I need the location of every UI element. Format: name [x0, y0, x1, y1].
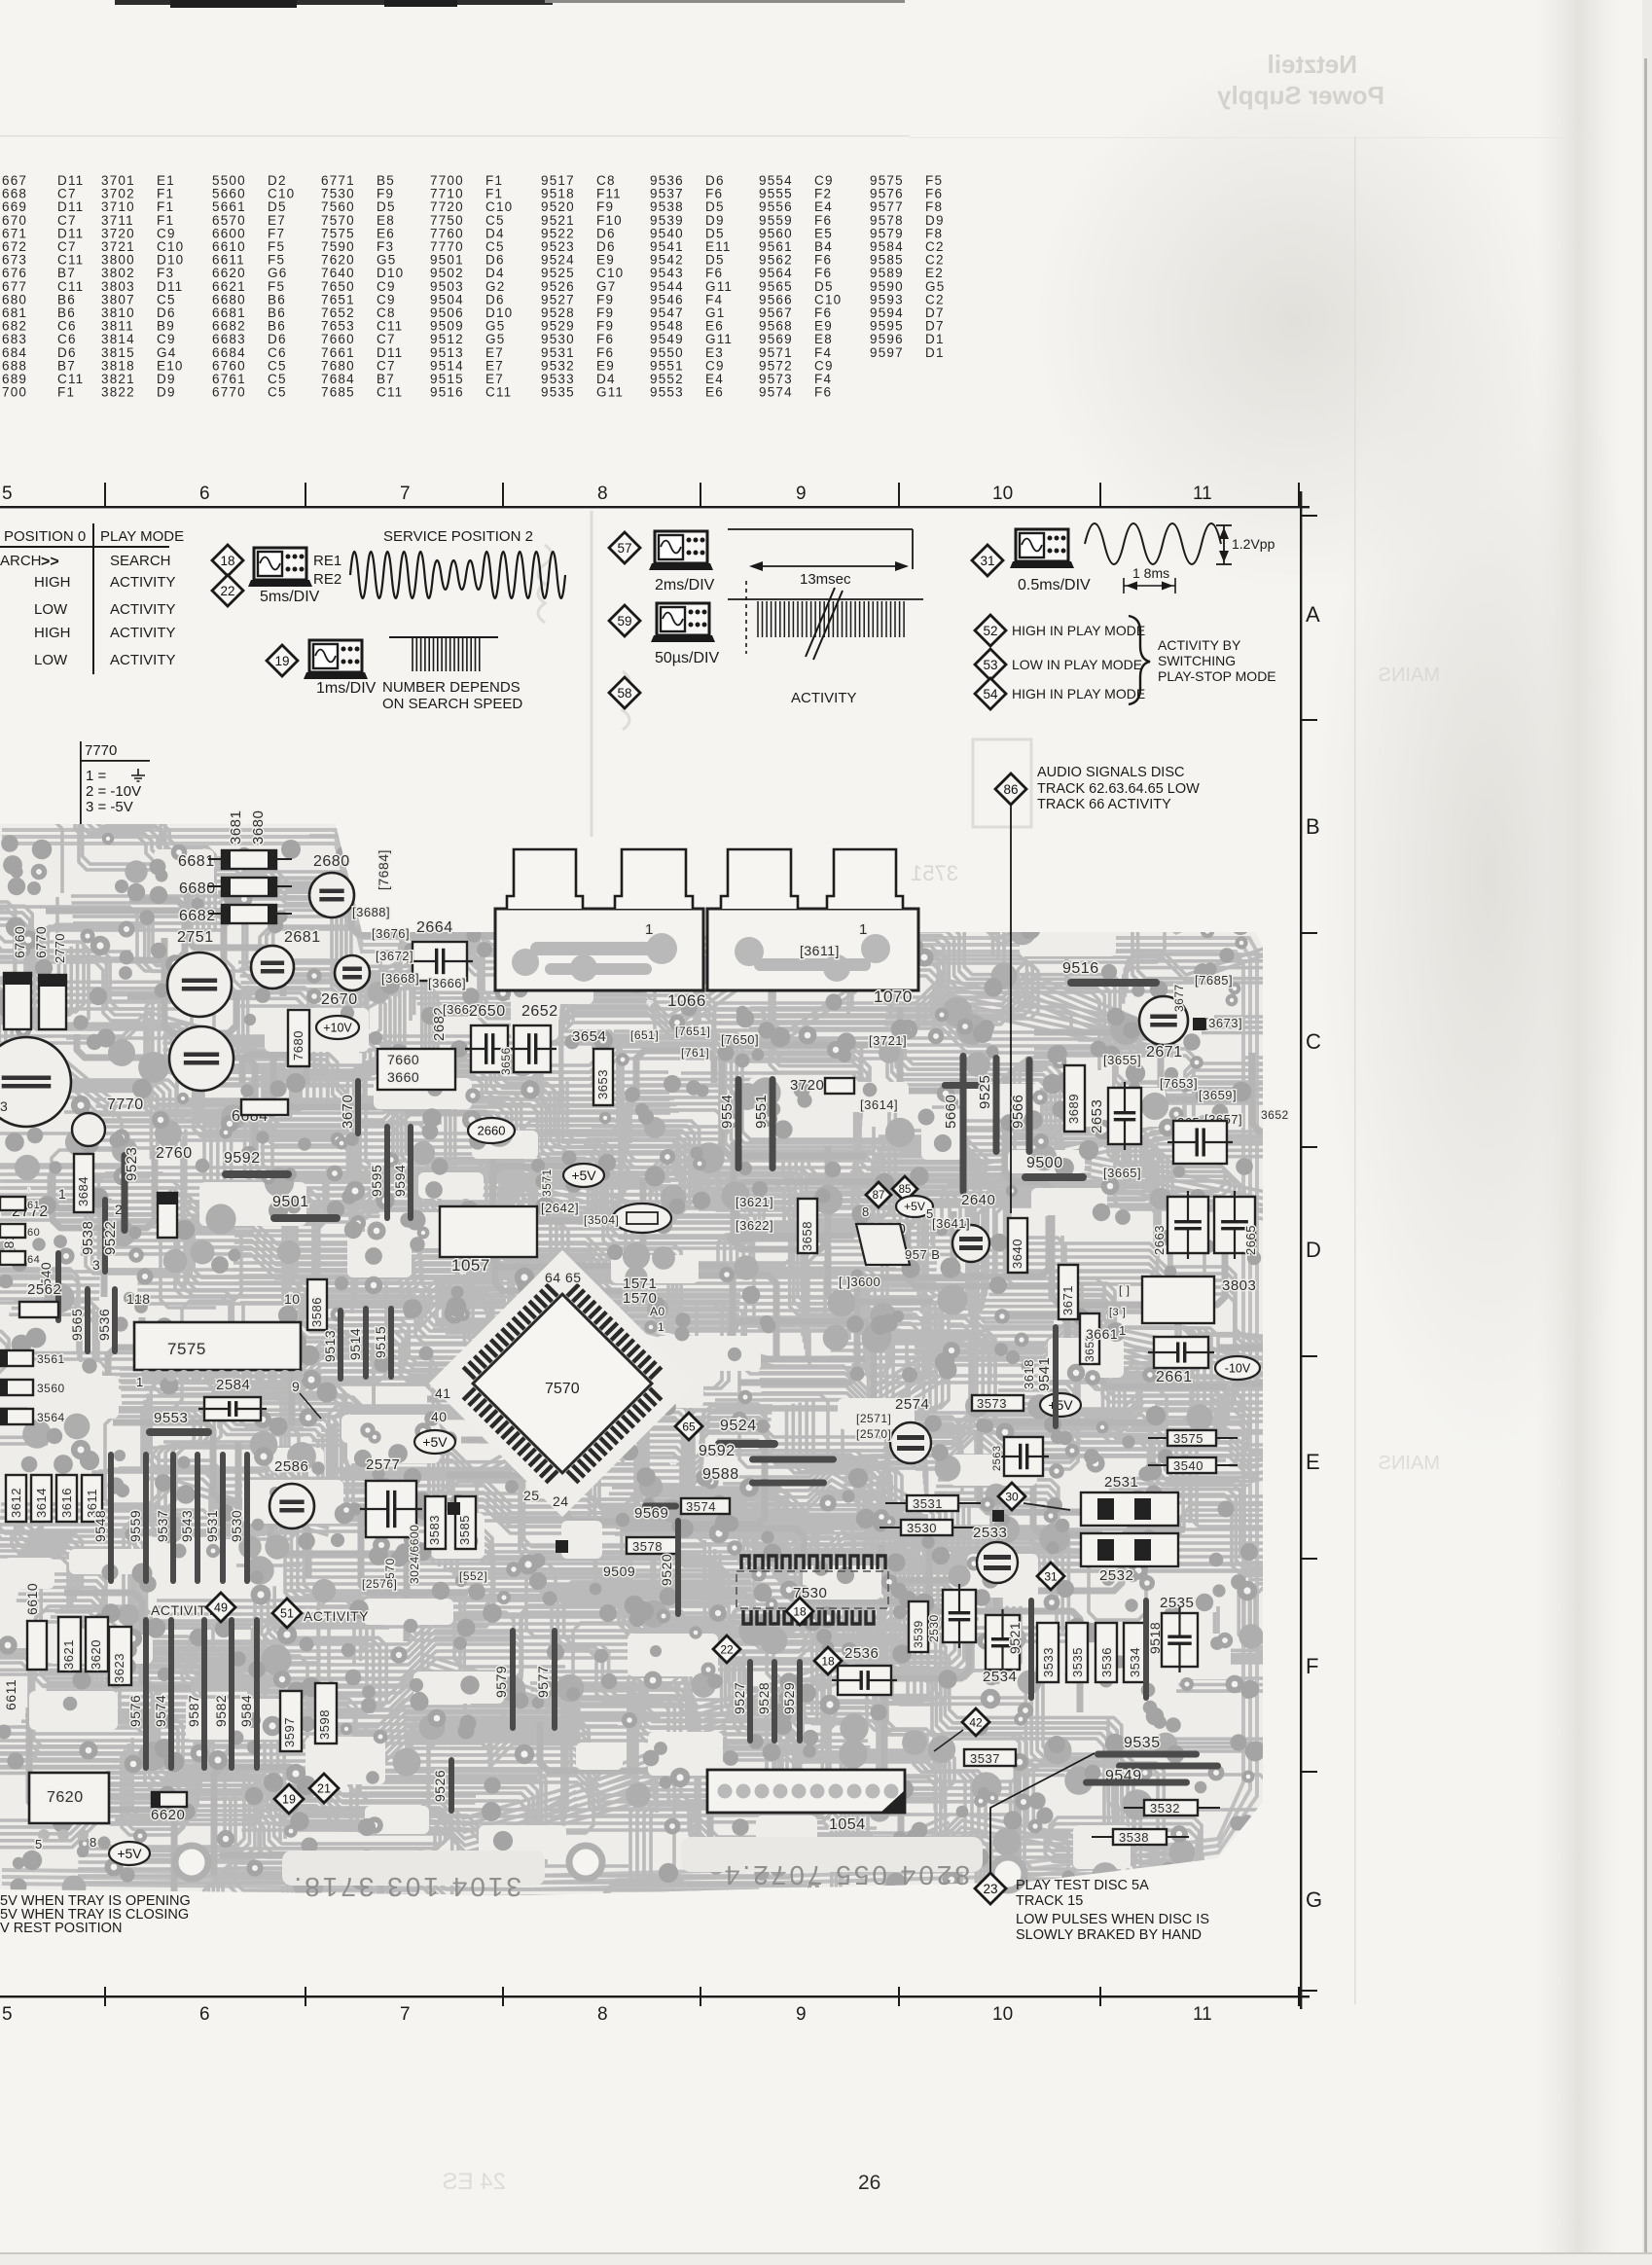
svg-text:25: 25 [523, 1488, 540, 1503]
svg-text:3104 103 3718.: 3104 103 3718. [291, 1872, 521, 1902]
3671 [1059, 1265, 1078, 1319]
connector 1066 [495, 909, 703, 990]
svg-text:3561: 3561 [37, 1352, 65, 1366]
svg-text:6770: 6770 [212, 385, 246, 400]
svg-text:9523: 9523 [124, 1147, 140, 1181]
3658 [798, 1199, 817, 1253]
svg-text:[7653]: [7653] [1160, 1076, 1198, 1091]
svg-text:[3611]: [3611] [800, 943, 840, 958]
svg-text:7: 7 [400, 2004, 411, 2025]
svg-text:1: 1 [658, 1320, 664, 1334]
svg-text:18: 18 [134, 1291, 151, 1307]
9579/9577 [510, 1628, 516, 1731]
svg-text:1 =: 1 = [86, 768, 107, 784]
svg-text:3: 3 [92, 1257, 100, 1273]
svg-text:9528: 9528 [756, 1682, 772, 1714]
svg-text:1054: 1054 [829, 1816, 866, 1833]
svg-text:5ms/DIV: 5ms/DIV [260, 589, 320, 605]
svg-text:9531: 9531 [204, 1510, 220, 1542]
2538 [943, 1590, 976, 1642]
svg-text:2760: 2760 [156, 1145, 193, 1162]
svg-text:2653: 2653 [1089, 1099, 1105, 1133]
3533/3535/3536/3534 [1037, 1623, 1059, 1682]
svg-text:ACTIVITY: ACTIVITY [110, 625, 176, 641]
mirrored board codes [681, 1837, 983, 1872]
svg-text:9525: 9525 [977, 1075, 993, 1109]
9595/9594 [384, 1124, 390, 1221]
svg-text:3656: 3656 [499, 1047, 513, 1075]
svg-text:9543: 9543 [179, 1510, 195, 1542]
svg-text:3574: 3574 [686, 1499, 716, 1514]
diamonds 87/85 [866, 1182, 891, 1207]
svg-text:21: 21 [317, 1782, 331, 1796]
pulse comb [389, 636, 498, 638]
left mode table [0, 528, 184, 668]
svg-text:9530: 9530 [229, 1510, 244, 1542]
svg-text:1066: 1066 [667, 991, 706, 1010]
svg-text:SEARCH: SEARCH [110, 553, 171, 569]
svg-text:9548: 9548 [92, 1510, 108, 1542]
search sine burst [350, 552, 565, 598]
svg-text:9509: 9509 [603, 1564, 635, 1579]
3621 3620 [58, 1617, 81, 1672]
svg-text:3 = -5V: 3 = -5V [86, 799, 133, 815]
svg-text:7575: 7575 [167, 1340, 206, 1358]
svg-text:3689: 3689 [1066, 1094, 1081, 1124]
svg-text:9513: 9513 [322, 1330, 338, 1362]
svg-text:2751: 2751 [177, 929, 214, 946]
svg-text:64: 64 [27, 1254, 40, 1266]
svg-text:3658: 3658 [800, 1221, 814, 1251]
svg-text:3720: 3720 [790, 1077, 824, 1094]
svg-text:2680: 2680 [313, 853, 350, 870]
svg-text:3532: 3532 [1150, 1801, 1180, 1816]
svg-text:G11: G11 [596, 385, 624, 400]
9520 [675, 1518, 681, 1617]
svg-text:7770: 7770 [107, 1097, 144, 1113]
svg-text:9518: 9518 [1147, 1622, 1163, 1654]
svg-text:9576: 9576 [127, 1695, 143, 1727]
svg-text:6: 6 [199, 484, 210, 504]
svg-text:1070: 1070 [874, 988, 913, 1006]
svg-text:18: 18 [793, 1604, 807, 1618]
svg-text:+5V: +5V [1048, 1397, 1073, 1413]
IC 7570 clearing halo [429, 1250, 696, 1517]
svg-text:10: 10 [992, 2004, 1013, 2025]
svg-text:9538: 9538 [80, 1221, 96, 1255]
svg-text:9524: 9524 [720, 1418, 757, 1434]
svg-text:41: 41 [435, 1385, 451, 1401]
svg-text:[7684]: [7684] [376, 849, 391, 890]
svg-text:Netzteil: Netzteil [1268, 50, 1357, 79]
+5V ellipses [563, 1164, 604, 1187]
connector tab [721, 849, 798, 909]
svg-text:C11: C11 [485, 385, 512, 400]
svg-text:TRACK 62.63.64.65 LOW: TRACK 62.63.64.65 LOW [1037, 781, 1200, 797]
svg-text:[3659]: [3659] [1199, 1088, 1237, 1102]
3803 box [1142, 1276, 1214, 1323]
svg-text:3540: 3540 [1173, 1458, 1203, 1473]
svg-text:3751: 3751 [911, 861, 958, 885]
svg-text:9587: 9587 [186, 1695, 201, 1727]
svg-text:[3622]: [3622] [736, 1218, 773, 1233]
svg-text:5: 5 [2, 2004, 13, 2025]
svg-text:54: 54 [983, 687, 998, 701]
svg-text:3530: 3530 [907, 1521, 937, 1535]
svg-text:LOW: LOW [34, 601, 68, 618]
9527/9528/9529 [747, 1659, 753, 1744]
svg-text:+10V: +10V [323, 1021, 352, 1034]
svg-text:9574: 9574 [153, 1695, 168, 1727]
svg-text:7685: 7685 [321, 385, 355, 400]
svg-text:31: 31 [1044, 1569, 1058, 1583]
svg-text:3822: 3822 [101, 385, 135, 400]
svg-text:SLOWLY BRAKED BY HAND: SLOWLY BRAKED BY HAND [1016, 1927, 1202, 1943]
svg-text:31: 31 [980, 554, 994, 568]
svg-text:3535: 3535 [1070, 1647, 1085, 1677]
7620 [29, 1773, 109, 1823]
9520 bar bottom [449, 1757, 454, 1814]
2660 [468, 1118, 515, 1143]
svg-text:C: C [1306, 1029, 1321, 1054]
svg-text:SERVICE POSITION 2: SERVICE POSITION 2 [383, 528, 533, 545]
svg-text:9579: 9579 [493, 1666, 509, 1698]
svg-text:6770: 6770 [33, 926, 49, 958]
svg-text:6: 6 [199, 2004, 210, 2025]
1054 connector [707, 1770, 905, 1813]
svg-text:30: 30 [1005, 1490, 1019, 1503]
svg-text:2577: 2577 [366, 1456, 400, 1473]
bars 9513/9514/9515 [338, 1308, 343, 1382]
left bar group 2 [143, 1617, 149, 1771]
svg-text:3654: 3654 [572, 1028, 606, 1045]
svg-text:3677: 3677 [1172, 984, 1186, 1012]
svg-text:40: 40 [431, 1409, 448, 1424]
3574 [681, 1498, 730, 1514]
svg-text:HIGH: HIGH [34, 625, 71, 641]
svg-text:ACTIVITY: ACTIVITY [110, 601, 176, 618]
svg-text:3598: 3598 [317, 1709, 332, 1740]
bottom ruler [0, 1995, 1310, 1997]
diamonds 19/21 bottom [274, 1784, 304, 1814]
svg-text:[3655]: [3655] [1103, 1053, 1141, 1067]
svg-text:3586: 3586 [309, 1297, 324, 1327]
2661 [1154, 1337, 1208, 1368]
svg-text:2 = -10V: 2 = -10V [86, 783, 141, 800]
svg-text:700: 700 [2, 385, 27, 400]
svg-text:9537: 9537 [155, 1510, 170, 1542]
svg-text:57: 57 [617, 541, 631, 556]
svg-text:[3673]: [3673] [1204, 1016, 1242, 1030]
svg-text:ON SEARCH SPEED: ON SEARCH SPEED [382, 696, 522, 712]
svg-text:2531: 2531 [1104, 1474, 1138, 1491]
svg-text:[2576]: [2576] [362, 1577, 397, 1591]
right frame line [1300, 491, 1302, 2009]
3684 [74, 1154, 93, 1212]
small sine 1.2Vpp [1085, 523, 1221, 564]
2577 row black squares [556, 1540, 568, 1553]
svg-text:1057: 1057 [461, 1272, 465, 1274]
svg-text:2563: 2563 [991, 1446, 1003, 1471]
svg-text:D: D [1306, 1238, 1321, 1262]
svg-text:6610: 6610 [24, 1583, 40, 1615]
svg-text:2640: 2640 [961, 1192, 995, 1208]
svg-text:F6: F6 [814, 385, 832, 400]
svg-text:9565: 9565 [69, 1309, 85, 1341]
svg-text:[7685]: [7685] [1195, 973, 1233, 988]
svg-text:2586: 2586 [274, 1458, 308, 1475]
svg-text:[7650]: [7650] [721, 1032, 759, 1047]
svg-text:6681: 6681 [178, 853, 215, 870]
left bar group 1 [108, 1452, 114, 1584]
svg-text:3564: 3564 [37, 1411, 65, 1424]
svg-text:ACTIVITY: ACTIVITY [110, 652, 176, 668]
svg-text:C11: C11 [377, 385, 403, 400]
svg-text:9: 9 [796, 484, 807, 504]
svg-text:6611: 6611 [3, 1679, 18, 1710]
svg-text:42: 42 [969, 1715, 983, 1729]
pads inside connectors [512, 933, 890, 982]
svg-text:3623: 3623 [112, 1653, 126, 1683]
svg-text:61: 61 [27, 1200, 40, 1211]
svg-text:D9: D9 [157, 385, 176, 400]
7530 comb [741, 1556, 749, 1569]
svg-text:3531: 3531 [913, 1496, 943, 1511]
svg-text:-10V: -10V [1225, 1361, 1251, 1375]
svg-text:5660: 5660 [943, 1095, 959, 1129]
svg-text:ACTIVITY: ACTIVITY [151, 1602, 216, 1618]
svg-text:3684: 3684 [76, 1176, 90, 1206]
svg-text:9516: 9516 [430, 385, 464, 400]
3640/3641 [1008, 1218, 1027, 1273]
2671 [1139, 996, 1188, 1045]
connector tab [507, 849, 583, 909]
svg-text:[3665]: [3665] [1103, 1166, 1141, 1180]
svg-text:9553: 9553 [650, 385, 684, 400]
svg-text:3640: 3640 [1010, 1239, 1024, 1269]
svg-text:[2570]: [2570] [856, 1427, 891, 1441]
svg-text:8: 8 [90, 1835, 97, 1850]
crystal 1571/1570 [613, 1204, 671, 1233]
svg-text:7680: 7680 [291, 1030, 305, 1061]
left D area small boxes [0, 1197, 25, 1210]
svg-text:3620: 3620 [89, 1639, 103, 1670]
svg-text:1.2Vpp: 1.2Vpp [1232, 536, 1275, 552]
svg-text:3652: 3652 [1261, 1108, 1289, 1122]
svg-text:2681: 2681 [284, 929, 321, 946]
svg-text:0.5ms/DIV: 0.5ms/DIV [1018, 577, 1091, 593]
svg-text:9588: 9588 [702, 1466, 739, 1483]
svg-text:3614: 3614 [34, 1488, 49, 1518]
svg-text:1: 1 [58, 1186, 66, 1202]
3539 [909, 1601, 928, 1652]
svg-text:D1: D1 [925, 345, 945, 360]
svg-text:59: 59 [617, 614, 631, 629]
svg-text:ACTIVITY BY: ACTIVITY BY [1158, 637, 1241, 653]
svg-text:3680: 3680 [250, 810, 267, 845]
svg-text:64 65: 64 65 [545, 1270, 582, 1285]
svg-text:7770: 7770 [85, 742, 117, 759]
top ruler [0, 506, 1310, 508]
mounting holes [175, 1846, 208, 1879]
svg-text:6620: 6620 [151, 1807, 185, 1823]
svg-text:6760: 6760 [12, 926, 27, 958]
svg-text:HIGH IN PLAY MODE: HIGH IN PLAY MODE [1012, 623, 1145, 638]
transistor circle near 2574 [890, 1422, 931, 1463]
svg-text:3538: 3538 [1119, 1830, 1149, 1845]
scope RE1/RE2 5ms [248, 548, 312, 587]
3670 [355, 1078, 361, 1136]
svg-text:3578: 3578 [632, 1539, 663, 1554]
svg-text:9515: 9515 [373, 1326, 388, 1358]
svg-text:PLAY TEST DISC 5A: PLAY TEST DISC 5A [1016, 1878, 1149, 1893]
svg-text:[3676]: [3676] [372, 926, 410, 941]
svg-text:[761]: [761] [681, 1046, 709, 1060]
svg-text:9526: 9526 [432, 1770, 448, 1802]
svg-text:19: 19 [282, 1793, 296, 1807]
svg-text:[2642]: [2642] [541, 1201, 579, 1215]
svg-text:TRACK 15: TRACK 15 [1016, 1893, 1083, 1909]
svg-text:3537: 3537 [970, 1751, 1000, 1766]
7660/3660 module [377, 1049, 455, 1090]
svg-text:2533: 2533 [973, 1525, 1007, 1541]
tray notes [0, 1893, 191, 1936]
svg-text:PLAY-STOP MODE: PLAY-STOP MODE [1158, 668, 1276, 684]
svg-text:2584: 2584 [216, 1377, 250, 1393]
connector tab [827, 849, 903, 909]
svg-text:NUMBER DEPENDS: NUMBER DEPENDS [382, 679, 521, 696]
3612/3614/3616/3611 [6, 1475, 26, 1522]
parts location table [2, 173, 945, 400]
svg-text:[3721]: [3721] [869, 1033, 907, 1048]
svg-text:9501: 9501 [272, 1194, 309, 1210]
svg-text:2670: 2670 [321, 991, 358, 1008]
svg-text:52: 52 [983, 624, 997, 638]
svg-text:9536: 9536 [96, 1309, 112, 1341]
3689 [1064, 1065, 1085, 1132]
svg-text:1: 1 [859, 921, 868, 938]
svg-text:18: 18 [821, 1654, 835, 1668]
svg-text:7: 7 [400, 484, 411, 504]
3586 [307, 1279, 327, 1330]
svg-text:2671: 2671 [1146, 1044, 1183, 1061]
9541 [1053, 1324, 1059, 1429]
svg-text:[7651]: [7651] [675, 1025, 710, 1038]
svg-text:+5V: +5V [571, 1168, 596, 1183]
svg-text:[3614]: [3614] [860, 1097, 898, 1112]
svg-text:19: 19 [274, 654, 289, 668]
svg-text:3536: 3536 [1099, 1647, 1114, 1677]
svg-text:2652: 2652 [521, 1003, 558, 1020]
svg-text:2535: 2535 [1160, 1595, 1194, 1611]
9521/9518 [1028, 1598, 1034, 1701]
svg-text:[3672]: [3672] [376, 949, 413, 963]
svg-text:23: 23 [983, 1882, 997, 1896]
svg-text:7660: 7660 [387, 1052, 419, 1067]
svg-text:E6: E6 [705, 385, 724, 400]
svg-text:9516: 9516 [1062, 960, 1099, 977]
svg-text:[ ]: [ ] [1119, 1283, 1131, 1297]
svg-text:9592: 9592 [224, 1150, 261, 1167]
svg-text:9595: 9595 [369, 1165, 384, 1197]
svg-text:3560: 3560 [37, 1382, 65, 1395]
svg-text:ACTIVITY: ACTIVITY [304, 1608, 369, 1624]
svg-text:1: 1 [1119, 1323, 1127, 1338]
svg-text:1: 1 [645, 921, 654, 938]
svg-text:3: 3 [0, 1098, 8, 1114]
svg-text:8: 8 [597, 2004, 608, 2025]
svg-text:9559: 9559 [127, 1510, 143, 1542]
svg-text:9535: 9535 [28, 1188, 30, 1192]
svg-text:ARCH: ARCH [0, 553, 42, 569]
3531/3530 [907, 1495, 958, 1511]
svg-text:1ms/DIV: 1ms/DIV [316, 680, 377, 697]
svg-text:11: 11 [1193, 484, 1212, 504]
3561/3560/3564 [0, 1350, 33, 1366]
svg-text:[2571]: [2571] [856, 1412, 891, 1425]
svg-text:MAINS: MAINS [1379, 665, 1440, 686]
svg-text:3660: 3660 [387, 1069, 419, 1085]
svg-text:5: 5 [35, 1837, 43, 1852]
svg-text:F1: F1 [57, 385, 75, 400]
svg-text:+5V: +5V [422, 1434, 448, 1450]
svg-text:11: 11 [1193, 2004, 1212, 2025]
PCB copper texture [0, 654, 1539, 2126]
svg-text:LOW: LOW [34, 652, 68, 668]
svg-text:TRACK 66 ACTIVITY: TRACK 66 ACTIVITY [1037, 797, 1171, 812]
svg-text:A0: A0 [650, 1305, 665, 1318]
svg-text:MAINS: MAINS [1379, 1453, 1440, 1474]
svg-text:3534: 3534 [1128, 1647, 1142, 1677]
svg-text:7570: 7570 [545, 1381, 580, 1397]
9525 9566 [993, 1055, 1000, 1155]
5660 [960, 1053, 967, 1195]
connector 1070 [707, 909, 918, 990]
svg-text:10: 10 [992, 484, 1013, 504]
svg-text:9541: 9541 [1036, 1357, 1053, 1391]
svg-text:2663: 2663 [1152, 1225, 1167, 1255]
svg-text:10: 10 [284, 1291, 301, 1307]
transistor 7770 [72, 1113, 105, 1146]
svg-text:ACTIVITY: ACTIVITY [110, 574, 176, 591]
2534 [986, 1615, 1020, 1670]
svg-text:9574: 9574 [759, 385, 793, 400]
svg-text:53: 53 [983, 658, 997, 672]
svg-text:9553: 9553 [154, 1410, 188, 1426]
svg-text:9551: 9551 [753, 1095, 770, 1129]
svg-text:[3688]: [3688] [352, 905, 390, 919]
IC 7575 [134, 1322, 301, 1370]
row letters [1306, 602, 1322, 1912]
svg-text:2562: 2562 [27, 1281, 61, 1298]
svg-text:1: 1 [136, 1375, 144, 1389]
svg-text:[3504]: [3504] [584, 1213, 619, 1227]
svg-text:9554: 9554 [719, 1095, 736, 1129]
svg-text:50µs/DIV: 50µs/DIV [655, 650, 719, 666]
svg-text:24: 24 [553, 1493, 569, 1509]
svg-text:Power Supply: Power Supply [1217, 81, 1384, 110]
svg-text:24 ES: 24 ES [443, 2169, 506, 2195]
svg-text:3583: 3583 [427, 1515, 442, 1545]
svg-text:9592: 9592 [699, 1443, 736, 1459]
svg-text:AUDIO SIGNALS DISC: AUDIO SIGNALS DISC [1037, 765, 1184, 780]
svg-text:[3668]: [3668] [381, 971, 419, 986]
svg-text:3618: 3618 [1022, 1359, 1036, 1389]
42 / 3537 [962, 1708, 989, 1736]
3575/3540 [1167, 1430, 1216, 1446]
svg-text:3573: 3573 [977, 1396, 1007, 1411]
svg-text:6680: 6680 [179, 881, 216, 897]
